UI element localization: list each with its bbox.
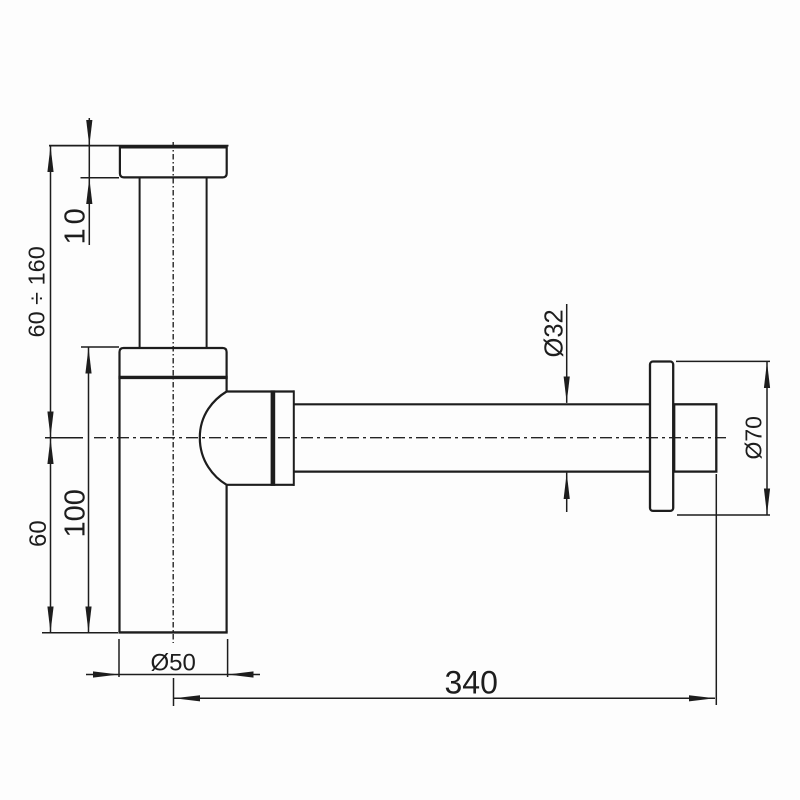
dim 340 center ext [173, 678, 175, 706]
dim 60-160 / 60 shared line [50, 146, 52, 633]
dim 340 line [174, 697, 715, 699]
svg-text:Ø32: Ø32 [541, 309, 569, 357]
dim O70 line [766, 361, 768, 515]
body right wall lower segment [226, 485, 228, 632]
collar thick groove line [118, 376, 227, 379]
dim 340 arrow right [689, 695, 715, 701]
svg-text:Ø50: Ø50 [151, 650, 196, 677]
dim O32 upper line [566, 304, 568, 403]
body left wall [118, 378, 120, 632]
svg-text:340: 340 [445, 665, 498, 701]
dim O50 left ext [118, 639, 120, 677]
wall pipe stub [674, 404, 716, 471]
dim O50 line [86, 674, 260, 676]
dim 60-160 arrow down [47, 412, 53, 438]
body collar top [120, 348, 227, 378]
dim O32 arrow down [564, 377, 570, 403]
svg-text:60 ÷ 160: 60 ÷ 160 [24, 246, 50, 337]
dim 10 arrow down [86, 120, 92, 146]
centerline tick left [45, 437, 83, 439]
svg-text:60: 60 [25, 520, 52, 547]
dim 60-160 arrow up [47, 146, 53, 172]
dim O32 lower line [566, 473, 568, 512]
body right wall upper segment [226, 378, 228, 392]
tube right wall [206, 178, 208, 347]
horizontal pipe bottom [294, 471, 649, 473]
outlet bell curve [200, 392, 227, 485]
wall flange rosette [650, 362, 673, 511]
dim 100 line [88, 347, 90, 633]
top flange extension line [49, 145, 229, 147]
dim O70 arrow down [764, 489, 770, 515]
dim 10 arrow up [86, 178, 92, 204]
dim 60 arrow down bottom [47, 607, 53, 633]
nut thick ring [271, 390, 276, 486]
dim O70 bottom ext [677, 514, 770, 516]
nut thin ring [293, 390, 295, 486]
dim 60 arrow up mid [47, 438, 53, 464]
outlet top line [227, 390, 295, 392]
top flange body [120, 147, 227, 177]
dim 10 line [88, 118, 90, 245]
body bottom tick [42, 632, 118, 634]
dim O50 arrow right [93, 671, 119, 677]
collar top tick [81, 346, 119, 348]
dim O70 arrow up [764, 362, 770, 388]
dim 340 right ext [715, 474, 717, 705]
dim O70 top ext [676, 360, 770, 362]
dim O50 arrow left [228, 671, 254, 677]
vertical centerline of trap body [172, 142, 174, 643]
dim 100 arrow up [85, 347, 91, 373]
dim 10 tick at flange bottom [81, 177, 120, 179]
horizontal pipe top [294, 403, 649, 405]
dim 100 arrow down [85, 607, 91, 633]
svg-text:10: 10 [60, 204, 92, 244]
svg-text:100: 100 [60, 489, 92, 537]
outlet bottom line [227, 484, 295, 486]
dim O50 right ext [227, 639, 229, 677]
dim O32 arrow up [564, 473, 570, 499]
tube left wall [139, 178, 141, 347]
svg-text:Ø70: Ø70 [741, 416, 767, 459]
dim 340 arrow left [174, 695, 200, 701]
horizontal centerline of outlet pipe [94, 437, 726, 439]
body bottom [118, 631, 227, 633]
